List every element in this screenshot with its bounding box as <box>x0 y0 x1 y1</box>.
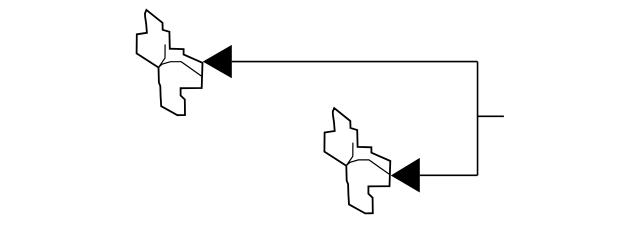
part bracket 2 (lower right) <box>324 108 390 213</box>
leader line 2 (horizontal to arrow 2) <box>420 174 478 176</box>
arrow 2 (black triangle pointing left at part 2) <box>391 158 420 193</box>
leader line 1 (horizontal from arrow 1) <box>232 61 478 63</box>
arrow 1 (black triangle pointing left at part 1) <box>203 45 232 78</box>
leader vertical connector <box>477 62 479 176</box>
part bracket 1 (upper left) <box>137 10 203 115</box>
reference tick <box>478 115 504 117</box>
